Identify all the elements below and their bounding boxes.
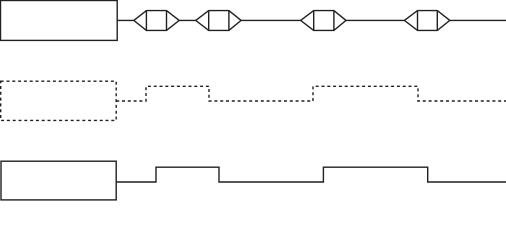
dashed waveform row 2 <box>116 86 506 101</box>
signal label box row 3 <box>1 161 116 200</box>
wire <box>346 19 404 21</box>
wire <box>450 19 506 21</box>
bus data symbol 3 <box>301 11 346 31</box>
waveform row 3 <box>116 167 506 182</box>
wire <box>241 19 301 21</box>
bus data symbol 1 <box>134 11 179 31</box>
wire <box>179 19 196 21</box>
dashed signal label box row 2 <box>1 81 117 120</box>
bus data symbol 4 <box>404 11 449 31</box>
signal label box row 1 <box>1 1 118 41</box>
wire <box>117 19 134 21</box>
bus data symbol 2 <box>196 11 241 31</box>
